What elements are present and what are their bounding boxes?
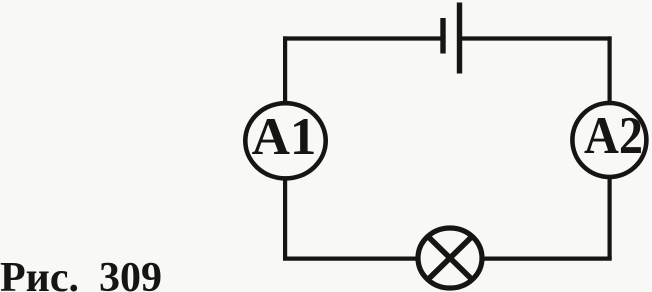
wire: right vertical branch <box>607 36 611 258</box>
battery B1: long (positive) plate <box>457 3 462 74</box>
svg-text:309: 309 <box>99 255 162 292</box>
ammeter A2 circle <box>572 103 646 177</box>
ammeter A1 circle <box>245 103 325 178</box>
battery B1: short (negative) plate <box>440 18 445 54</box>
lamp HL1 circle <box>418 228 482 288</box>
svg-text:A2: A2 <box>584 107 643 165</box>
svg-text:A1: A1 <box>252 108 317 166</box>
svg-text:Рис.: Рис. <box>0 255 79 292</box>
wire: bottom horizontal segment <box>283 257 612 261</box>
wire: top horizontal, left segment (to battery negative plate) <box>283 36 442 40</box>
wire: top horizontal, right segment (from battery positive plate) <box>460 36 612 40</box>
wire: left vertical branch <box>283 36 287 258</box>
lamp HL1 cross stroke 1 <box>429 238 471 279</box>
lamp HL1 cross stroke 2 <box>429 238 471 279</box>
